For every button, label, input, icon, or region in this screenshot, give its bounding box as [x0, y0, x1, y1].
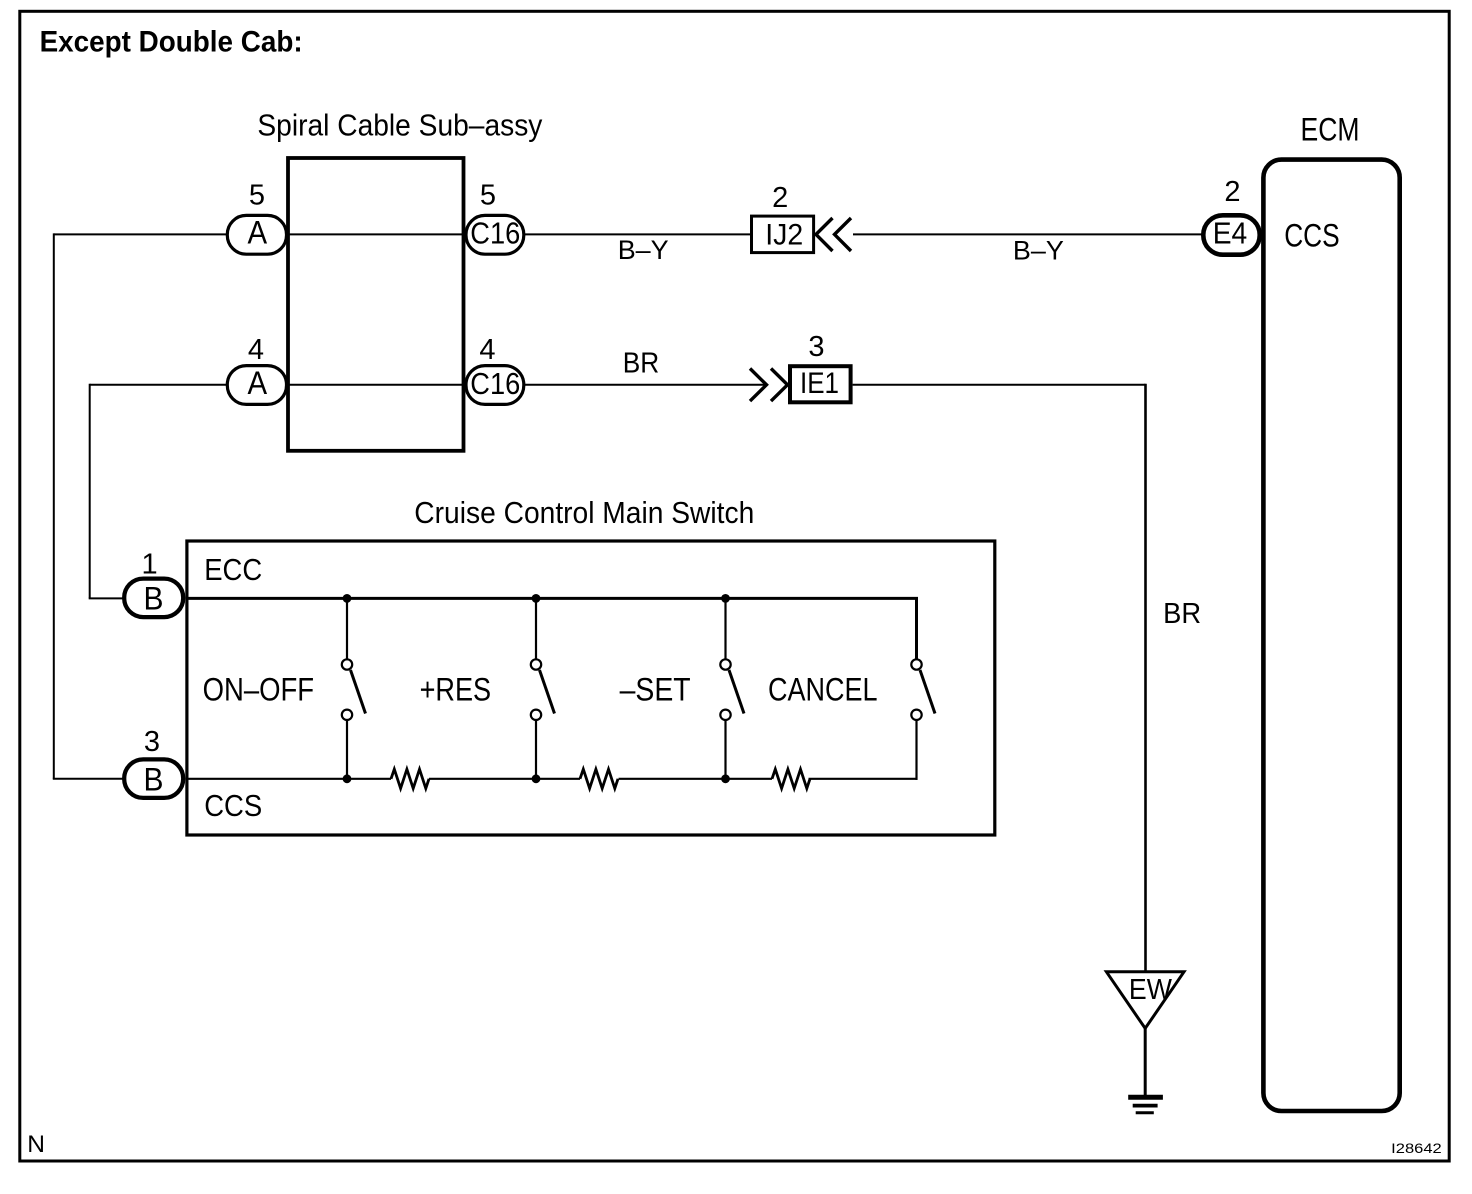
svg-text:Except Double Cab:: Except Double Cab: [40, 26, 303, 59]
wire B-Y row left segment [54, 233, 227, 235]
junction connector IJ2 [752, 216, 814, 253]
svg-text:5: 5 [249, 180, 265, 212]
svg-text:ECM: ECM [1301, 112, 1360, 148]
wire left vertical inner (row2 to B1) [89, 384, 91, 599]
svg-text:Spiral Cable Sub–assy: Spiral Cable Sub–assy [257, 108, 542, 143]
resistor R2 [580, 769, 618, 788]
svg-text:A: A [248, 365, 268, 401]
svg-text:3: 3 [808, 331, 824, 363]
svg-text:ON–OFF: ON–OFF [203, 672, 315, 708]
spiral cable box [288, 158, 464, 451]
CCS wire seg4 [809, 778, 918, 780]
connector A pin5 [227, 215, 286, 254]
wire C16 to IE1 arrows [524, 384, 766, 386]
connector C16 pin4 [466, 366, 524, 405]
arrow chevrons into IE1 [750, 369, 788, 402]
svg-text:3: 3 [144, 726, 160, 758]
switch ON-OFF [342, 598, 366, 778]
connector B pin3 [124, 759, 183, 798]
resistor R1 [391, 769, 429, 788]
CANCEL branch lower vertical [915, 721, 917, 780]
svg-text:E4: E4 [1213, 216, 1248, 251]
wire BR row from A to left [90, 384, 227, 386]
svg-text:1: 1 [142, 549, 158, 581]
junction dot ECC 1 [343, 594, 352, 603]
svg-text:CCS: CCS [1284, 218, 1340, 254]
ECM box [1263, 160, 1399, 1111]
svg-text:4: 4 [248, 334, 264, 366]
wire inside spiral box row1 [286, 233, 466, 235]
junction dot CCS 3 [721, 774, 730, 783]
switch +RES [531, 598, 555, 778]
ground symbol [1128, 1097, 1163, 1112]
svg-text:IE1: IE1 [800, 367, 839, 400]
wire C16 to IJ2 [524, 233, 751, 235]
svg-text:2: 2 [1224, 176, 1240, 208]
svg-text:C16: C16 [470, 216, 520, 251]
svg-text:B: B [144, 762, 164, 798]
connector A pin4 [227, 366, 286, 405]
svg-text:C16: C16 [470, 366, 520, 401]
svg-text:N: N [27, 1131, 45, 1158]
wire stub to B3 [53, 778, 125, 780]
wire BR vertical down [1144, 384, 1147, 972]
svg-text:EW: EW [1129, 974, 1173, 1006]
svg-text:B: B [144, 581, 164, 617]
ground triangle EW [1106, 972, 1184, 1029]
svg-text:–SET: –SET [620, 672, 691, 708]
svg-text:B–Y: B–Y [1013, 236, 1064, 266]
connector C16 pin5 [466, 215, 524, 254]
svg-text:A: A [248, 215, 268, 251]
CCS bus wire [186, 778, 391, 780]
switch -SET [720, 598, 744, 778]
ECC bus wire [186, 598, 917, 658]
wire EW to ground [1144, 1028, 1147, 1097]
svg-text:5: 5 [480, 180, 496, 212]
svg-text:4: 4 [479, 334, 495, 366]
svg-text:BR: BR [1163, 598, 1201, 630]
svg-text:Cruise Control Main Switch: Cruise Control Main Switch [414, 495, 754, 530]
svg-text:CCS: CCS [204, 788, 262, 823]
arrow chevrons into IJ2 [816, 218, 851, 251]
wire stub to B1 [89, 597, 125, 599]
wire inside spiral box row2 [286, 384, 466, 386]
svg-text:BR: BR [623, 348, 660, 380]
connector B pin1 [124, 579, 183, 618]
junction dot CCS 2 [532, 774, 541, 783]
wire IE1 to corner [853, 384, 1146, 386]
wire IJ2 arrows to E4 [853, 233, 1203, 235]
CCS wire seg2 [429, 778, 580, 780]
svg-text:ECC: ECC [204, 552, 262, 587]
junction dot ECC 3 [721, 594, 730, 603]
wire left vertical outer (row1 to B3) [53, 233, 55, 778]
svg-text:+RES: +RES [420, 672, 492, 708]
cruise switch box [187, 541, 995, 835]
svg-text:I28642: I28642 [1391, 1141, 1442, 1156]
junction dot ECC 2 [532, 594, 541, 603]
junction dot CCS 1 [343, 774, 352, 783]
connector E4 [1203, 215, 1259, 254]
svg-text:CANCEL: CANCEL [768, 672, 878, 708]
resistor R3 [772, 769, 810, 788]
svg-text:2: 2 [772, 182, 788, 214]
CCS wire seg3 [619, 778, 773, 780]
junction connector IE1 [790, 366, 851, 402]
svg-text:IJ2: IJ2 [765, 219, 803, 252]
switch CANCEL [911, 659, 935, 720]
svg-text:B–Y: B–Y [618, 235, 669, 265]
